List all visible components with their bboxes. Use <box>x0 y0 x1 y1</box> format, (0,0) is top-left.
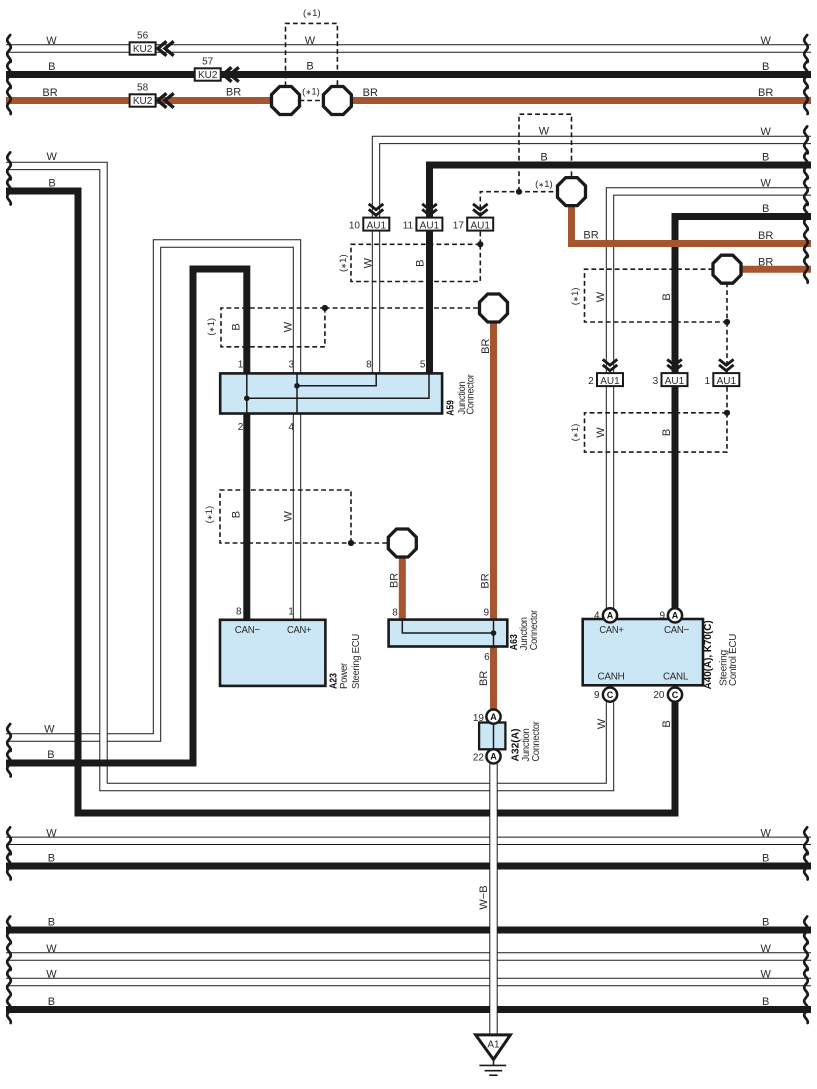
svg-text:BR: BR <box>758 87 773 99</box>
svg-text:19: 19 <box>473 713 485 724</box>
svg-text:B: B <box>48 917 55 929</box>
svg-text:Connector: Connector <box>530 721 542 762</box>
svg-text:W: W <box>46 943 57 955</box>
svg-text:B: B <box>306 60 313 72</box>
svg-text:(∗1): (∗1) <box>570 288 581 306</box>
svg-text:58: 58 <box>137 82 149 93</box>
svg-text:(∗1): (∗1) <box>302 87 320 98</box>
svg-text:8: 8 <box>392 607 398 618</box>
svg-text:AU1: AU1 <box>367 220 387 231</box>
svg-text:W: W <box>761 35 772 47</box>
svg-text:(∗1): (∗1) <box>303 8 321 19</box>
svg-text:CAN−: CAN− <box>235 624 260 636</box>
svg-text:BR: BR <box>480 573 492 588</box>
svg-text:W: W <box>761 178 772 190</box>
svg-text:A40(A), K70(C): A40(A), K70(C) <box>702 620 714 689</box>
svg-text:CAN−: CAN− <box>664 624 689 636</box>
svg-text:B: B <box>661 720 673 727</box>
svg-text:A: A <box>607 611 614 621</box>
svg-text:1: 1 <box>704 376 710 387</box>
svg-text:B: B <box>661 293 673 300</box>
svg-text:BR: BR <box>758 256 773 268</box>
svg-text:(∗1): (∗1) <box>206 318 217 336</box>
svg-text:KU2: KU2 <box>133 96 153 107</box>
svg-text:AU1: AU1 <box>665 376 685 387</box>
svg-text:Power: Power <box>338 662 350 689</box>
svg-text:B: B <box>762 996 769 1008</box>
svg-text:W: W <box>761 969 772 981</box>
svg-text:2: 2 <box>238 422 244 433</box>
svg-text:1: 1 <box>238 360 244 371</box>
svg-text:BR: BR <box>480 339 492 354</box>
svg-text:B: B <box>48 853 55 865</box>
svg-text:56: 56 <box>137 30 149 41</box>
svg-text:A1: A1 <box>487 1039 500 1050</box>
svg-text:11: 11 <box>403 220 414 231</box>
svg-text:4: 4 <box>594 611 600 622</box>
svg-text:5: 5 <box>420 360 426 371</box>
svg-text:B: B <box>231 323 243 330</box>
svg-text:(∗1): (∗1) <box>338 254 349 272</box>
svg-text:4: 4 <box>289 422 295 433</box>
svg-text:(∗1): (∗1) <box>204 506 215 524</box>
svg-text:B: B <box>47 749 54 761</box>
svg-text:9: 9 <box>484 607 490 618</box>
svg-text:9: 9 <box>659 611 665 622</box>
svg-text:A: A <box>490 752 497 762</box>
svg-text:W: W <box>761 827 772 839</box>
svg-text:W: W <box>46 827 57 839</box>
svg-text:W: W <box>283 510 295 521</box>
svg-text:B: B <box>762 152 769 164</box>
svg-text:20: 20 <box>653 690 665 701</box>
svg-text:CAN+: CAN+ <box>599 624 623 636</box>
svg-text:W: W <box>595 427 607 438</box>
svg-text:C: C <box>607 690 614 700</box>
svg-text:B: B <box>231 511 243 518</box>
svg-text:KU2: KU2 <box>133 44 153 55</box>
svg-text:AU1: AU1 <box>470 220 490 231</box>
svg-text:BR: BR <box>478 671 490 686</box>
svg-text:B: B <box>414 260 426 267</box>
svg-text:Steering ECU: Steering ECU <box>350 634 362 689</box>
svg-text:B: B <box>48 178 55 190</box>
svg-text:AU1: AU1 <box>717 376 737 387</box>
svg-text:BR: BR <box>42 87 57 99</box>
svg-text:B: B <box>762 917 769 929</box>
svg-text:KU2: KU2 <box>198 70 218 81</box>
svg-text:A: A <box>672 611 679 621</box>
svg-text:B: B <box>762 203 769 215</box>
svg-text:B: B <box>762 853 769 865</box>
svg-text:W: W <box>362 257 374 268</box>
svg-text:3: 3 <box>289 360 295 371</box>
svg-text:Control ECU: Control ECU <box>727 634 739 686</box>
svg-text:3: 3 <box>653 376 659 387</box>
svg-text:8: 8 <box>366 360 372 371</box>
svg-text:(∗1): (∗1) <box>535 179 553 190</box>
svg-text:CANH: CANH <box>598 671 625 683</box>
svg-text:BR: BR <box>758 230 773 242</box>
svg-text:A59: A59 <box>444 400 456 416</box>
svg-text:BR: BR <box>363 87 378 99</box>
svg-text:W: W <box>46 969 57 981</box>
svg-text:B: B <box>762 61 769 73</box>
svg-text:C: C <box>672 690 679 700</box>
svg-text:(∗1): (∗1) <box>570 424 581 442</box>
svg-text:CAN+: CAN+ <box>287 624 311 636</box>
svg-text:AU1: AU1 <box>600 376 620 387</box>
svg-text:8: 8 <box>236 607 242 618</box>
svg-text:57: 57 <box>202 56 214 67</box>
svg-text:W: W <box>761 943 772 955</box>
svg-text:22: 22 <box>473 753 485 764</box>
svg-text:17: 17 <box>453 220 465 231</box>
svg-text:W: W <box>761 126 772 138</box>
svg-text:6: 6 <box>484 652 490 663</box>
svg-text:CANL: CANL <box>663 671 688 683</box>
svg-text:BR: BR <box>389 573 401 588</box>
svg-text:W: W <box>283 321 295 332</box>
svg-text:2: 2 <box>588 376 594 387</box>
svg-text:W: W <box>46 35 57 47</box>
svg-text:W: W <box>539 126 550 138</box>
svg-text:1: 1 <box>288 607 294 618</box>
svg-text:BR: BR <box>583 229 598 241</box>
svg-text:W−B: W−B <box>478 885 490 909</box>
svg-text:B: B <box>48 996 55 1008</box>
svg-text:Connector: Connector <box>465 374 477 415</box>
svg-text:B: B <box>540 151 547 163</box>
svg-text:B: B <box>48 61 55 73</box>
svg-text:W: W <box>596 718 608 729</box>
svg-text:9: 9 <box>594 690 600 701</box>
svg-text:AU1: AU1 <box>420 220 440 231</box>
svg-text:10: 10 <box>349 220 361 231</box>
svg-text:W: W <box>595 291 607 302</box>
svg-text:W: W <box>47 151 58 163</box>
svg-text:A: A <box>490 712 497 722</box>
svg-text:B: B <box>661 429 673 436</box>
svg-text:W: W <box>44 723 55 735</box>
svg-text:W: W <box>305 35 316 47</box>
svg-text:Connector: Connector <box>528 610 540 651</box>
svg-text:BR: BR <box>226 86 241 98</box>
